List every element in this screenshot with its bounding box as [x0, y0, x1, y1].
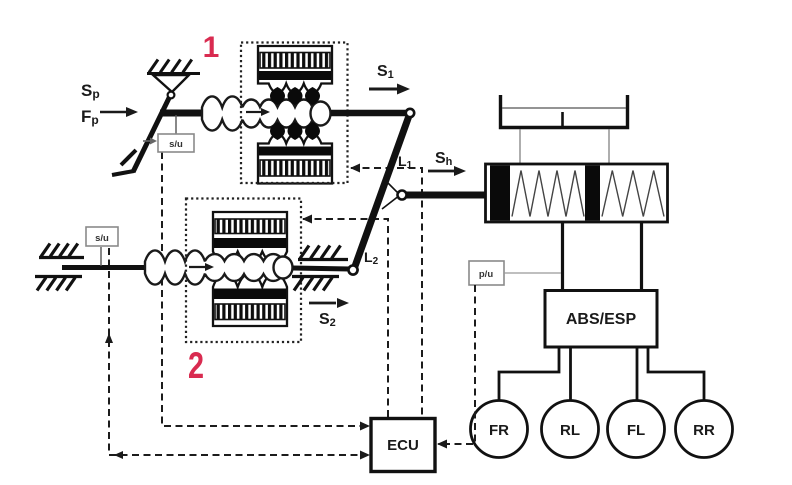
svg-text:RL: RL	[560, 422, 580, 439]
svg-text:ECU: ECU	[387, 437, 419, 454]
svg-text:RR: RR	[693, 422, 715, 439]
svg-text:FR: FR	[489, 422, 509, 439]
svg-text:s/u: s/u	[95, 233, 109, 244]
svg-text:FL: FL	[627, 422, 645, 439]
svg-text:ABS/ESP: ABS/ESP	[566, 311, 637, 328]
svg-text:p/u: p/u	[479, 269, 493, 280]
svg-text:s/u: s/u	[169, 139, 183, 150]
svg-text:2: 2	[188, 345, 204, 386]
svg-text:1: 1	[203, 31, 220, 64]
